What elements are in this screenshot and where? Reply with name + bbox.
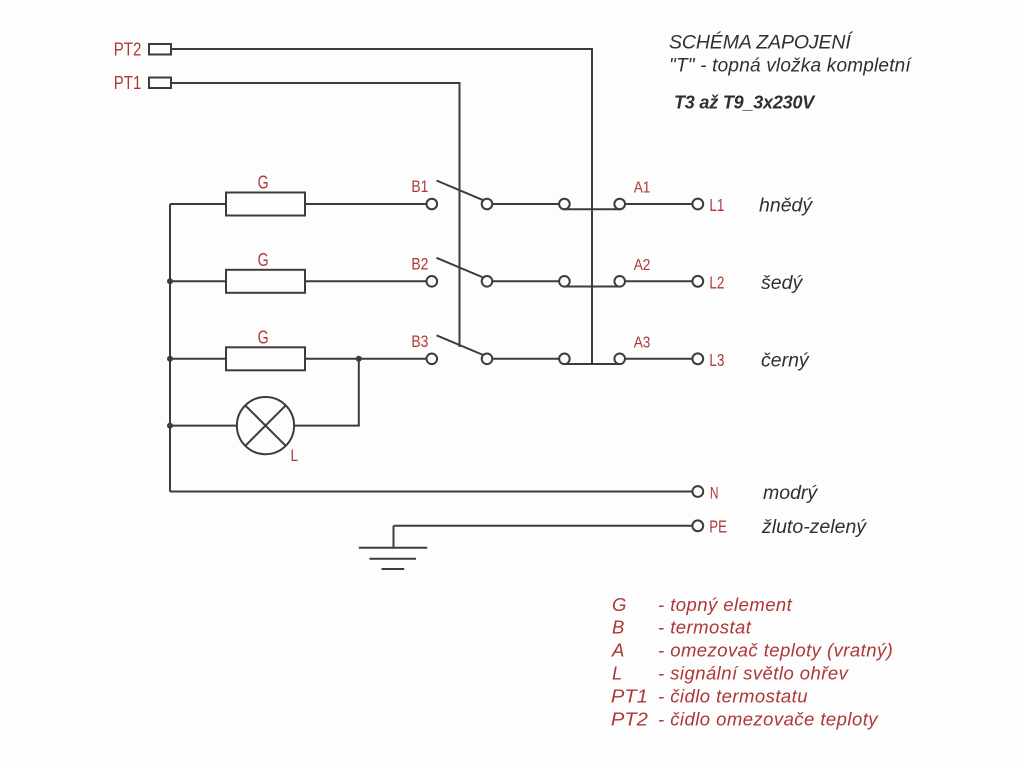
resistor G1 (226, 172, 305, 216)
thermostat B1 (411, 178, 492, 209)
wire left bus (169, 204, 171, 492)
svg-text:L1: L1 (709, 195, 724, 215)
svg-text:T3 až T9_3x230V: T3 až T9_3x230V (674, 92, 816, 112)
svg-text:černý: černý (761, 349, 810, 371)
svg-text:- omezovač teploty (vratný): - omezovač teploty (vratný) (658, 640, 893, 661)
svg-text:šedý: šedý (761, 272, 803, 294)
resistor G2 (226, 249, 305, 293)
terminal PE (692, 517, 727, 537)
svg-text:PE: PE (709, 517, 727, 537)
svg-text:modrý: modrý (763, 482, 818, 504)
svg-text:B3: B3 (411, 333, 428, 351)
lamp L (237, 397, 298, 465)
limiter A2 (559, 257, 650, 287)
wire G1 to B1 (305, 203, 427, 205)
legend line B (612, 617, 752, 638)
wire PE (394, 525, 693, 527)
ground (359, 526, 427, 569)
wire row3 bus to G3 (170, 358, 226, 360)
wire PT2 to limiter column (171, 49, 592, 364)
svg-text:žluto-zelený: žluto-zelený (761, 516, 867, 538)
thermostat B2 (411, 255, 492, 286)
legend line PT1 (611, 686, 808, 707)
svg-text:PT2: PT2 (611, 708, 649, 729)
legend line G (612, 594, 793, 615)
svg-text:G: G (258, 326, 269, 347)
terminal L3 (692, 350, 724, 370)
sensor PT2 (114, 39, 171, 60)
svg-text:B1: B1 (411, 178, 428, 196)
svg-text:- topný element: - topný element (658, 594, 793, 615)
svg-text:B: B (612, 617, 624, 638)
wire bus to lamp (170, 425, 237, 427)
limiter A3 (559, 335, 650, 365)
svg-text:B2: B2 (411, 255, 428, 273)
svg-text:L2: L2 (709, 272, 724, 292)
terminal L1 (692, 195, 724, 215)
svg-text:hnědý: hnědý (759, 195, 813, 217)
wire bottom N (170, 491, 692, 493)
legend line L (612, 663, 850, 684)
wire G3 to B3 (305, 358, 427, 360)
svg-text:- čidlo termostatu: - čidlo termostatu (658, 686, 808, 707)
svg-text:PT1: PT1 (114, 72, 142, 93)
legend line PT2 (611, 708, 879, 729)
junction row3 lamp branch (356, 356, 362, 362)
svg-text:A2: A2 (634, 257, 651, 274)
terminal N (692, 484, 718, 503)
legend line A (611, 640, 893, 661)
wire PT1 to thermostat column (171, 83, 460, 347)
junction lamp bus (167, 423, 173, 429)
svg-text:N: N (710, 484, 719, 503)
svg-text:A3: A3 (634, 335, 651, 352)
wire row2 bus to G2 (170, 280, 226, 282)
svg-text:A1: A1 (634, 180, 651, 197)
svg-text:L3: L3 (709, 350, 724, 370)
thermostat B3 (411, 333, 492, 364)
junction row3 bus (167, 356, 173, 362)
wire A2 to L2 (625, 280, 692, 282)
wire lamp to row3 junction (294, 359, 359, 426)
sensor PT1 (114, 72, 171, 93)
svg-text:"T" - topná vložka kompletní: "T" - topná vložka kompletní (669, 55, 912, 76)
svg-text:G: G (258, 249, 269, 270)
svg-text:G: G (258, 172, 269, 193)
wire B3 to A3 (492, 358, 559, 360)
svg-text:- signální světlo ohřev: - signální světlo ohřev (658, 663, 850, 684)
wire B2 to A2 (492, 280, 559, 282)
svg-text:L: L (291, 446, 299, 465)
svg-text:L: L (612, 663, 622, 684)
svg-text:- čidlo omezovače teploty: - čidlo omezovače teploty (658, 708, 879, 729)
limiter A1 (559, 180, 650, 210)
svg-text:SCHÉMA ZAPOJENÍ: SCHÉMA ZAPOJENÍ (669, 31, 853, 54)
terminal L2 (692, 272, 724, 292)
wire G2 to B2 (305, 280, 427, 282)
wire B1 to A1 (492, 203, 559, 205)
svg-text:G: G (612, 594, 626, 615)
wire A1 to L1 (625, 203, 692, 205)
resistor G3 (226, 326, 305, 370)
svg-text:PT1: PT1 (611, 686, 648, 707)
svg-text:PT2: PT2 (114, 39, 142, 60)
junction row2 bus (167, 278, 173, 284)
svg-text:- termostat: - termostat (658, 617, 752, 638)
wire A3 to L3 (625, 358, 692, 360)
wire row1 bus to G1 (170, 203, 226, 205)
svg-text:A: A (611, 640, 624, 661)
